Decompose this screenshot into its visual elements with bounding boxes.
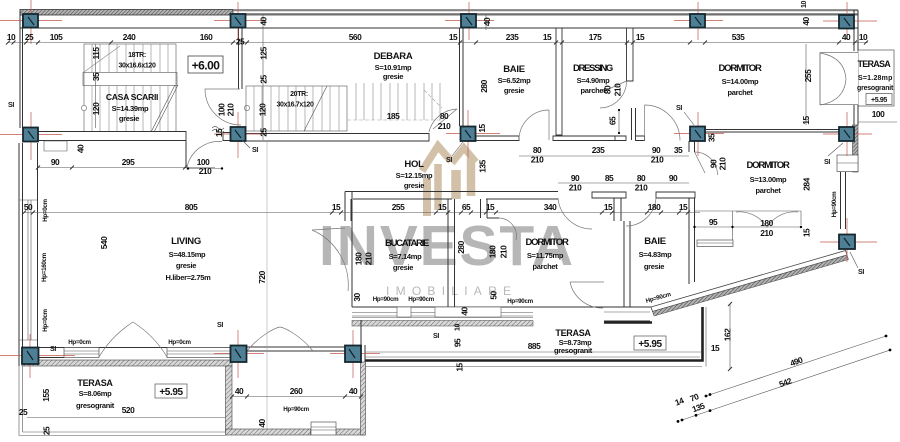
svg-text:40: 40 xyxy=(257,419,267,428)
svg-text:155: 155 xyxy=(41,388,51,401)
column S1 bottom row 3 xyxy=(330,330,380,378)
svg-text:40: 40 xyxy=(482,17,492,26)
wall living south band with windows xyxy=(22,348,232,367)
svg-text:Hp=90cm: Hp=90cm xyxy=(831,191,838,217)
svg-text:15: 15 xyxy=(449,32,458,42)
svg-text:SI: SI xyxy=(8,102,14,109)
svg-text:parchet: parchet xyxy=(756,186,782,195)
svg-text:gresie: gresie xyxy=(176,261,196,270)
svg-text:50: 50 xyxy=(24,202,33,212)
column S1 mid row 4 xyxy=(674,112,724,156)
svg-text:90: 90 xyxy=(652,145,661,155)
svg-text:15: 15 xyxy=(438,202,447,212)
svg-text:560: 560 xyxy=(349,32,362,42)
kitchen south wall windows xyxy=(352,192,660,327)
wall dressing south + east pieces xyxy=(553,136,621,141)
svg-text:520: 520 xyxy=(122,405,135,415)
dimension dormitor13 south xyxy=(695,226,802,228)
column S1 top row 1 xyxy=(0,0,62,44)
dimension kitchen windows xyxy=(373,296,534,305)
svg-text:gresie: gresie xyxy=(404,181,424,190)
wall baie/dressing divider xyxy=(556,28,562,135)
dimension row hol doors xyxy=(477,83,728,173)
svg-text:210: 210 xyxy=(499,245,509,258)
svg-text:40: 40 xyxy=(76,144,86,153)
svg-text:25: 25 xyxy=(259,128,269,137)
svg-text:120: 120 xyxy=(258,103,268,116)
door living-bucatarie xyxy=(312,228,348,291)
break mark xyxy=(212,127,224,133)
svg-text:15: 15 xyxy=(801,116,811,125)
svg-text:CASA SCARII: CASA SCARII xyxy=(106,92,158,102)
svg-text:S=6.52mp: S=6.52mp xyxy=(498,76,532,85)
dimension terasa 8.73 xyxy=(365,302,733,372)
svg-text:255: 255 xyxy=(392,202,405,212)
right window band Hp90 xyxy=(841,172,846,229)
wall right exterior below niche xyxy=(854,105,858,125)
svg-text:15: 15 xyxy=(543,32,552,42)
dormitor11/baie south band xyxy=(604,307,652,323)
watermark INVESTA xyxy=(319,146,575,298)
svg-text:80: 80 xyxy=(533,145,542,155)
svg-text:TERASA: TERASA xyxy=(77,378,113,388)
svg-text:TERASA: TERASA xyxy=(555,328,591,338)
svg-text:Hp=0cm: Hp=0cm xyxy=(42,308,49,331)
door dormitor14 xyxy=(645,105,681,141)
door dressing xyxy=(600,81,627,108)
svg-text:210: 210 xyxy=(199,166,212,176)
svg-text:S=1.28mp: S=1.28mp xyxy=(858,75,892,82)
svg-text:25: 25 xyxy=(259,75,269,84)
svg-text:LIVING: LIVING xyxy=(171,236,201,247)
svg-text:parchet: parchet xyxy=(581,86,607,95)
wall dormitor11 north segments xyxy=(592,192,626,198)
svg-text:Hp=160cm: Hp=160cm xyxy=(41,252,48,282)
dimension patio xyxy=(230,386,363,428)
dimension row bedroom doors xyxy=(558,173,689,193)
svg-text:+5.95: +5.95 xyxy=(871,97,887,104)
svg-text:40: 40 xyxy=(801,17,811,26)
svg-text:340: 340 xyxy=(544,202,557,212)
svg-text:65: 65 xyxy=(462,202,471,212)
svg-text:gresie: gresie xyxy=(504,86,524,95)
door patio french xyxy=(247,327,313,351)
svg-text:parchet: parchet xyxy=(728,88,754,97)
svg-text:15: 15 xyxy=(477,124,487,133)
svg-text:gresie: gresie xyxy=(119,114,139,123)
svg-text:18TR:: 18TR: xyxy=(128,52,146,59)
dimension verticals center xyxy=(41,141,838,430)
svg-text:15: 15 xyxy=(214,128,224,137)
svg-text:SI: SI xyxy=(676,105,682,112)
svg-text:10: 10 xyxy=(801,1,808,9)
svg-text:Hp=90cm: Hp=90cm xyxy=(283,406,309,413)
dormitor13 south wall line xyxy=(695,211,802,240)
svg-text:SI: SI xyxy=(858,269,864,276)
door hol-bucatarie xyxy=(499,218,516,240)
svg-text:BUCATARIE: BUCATARIE xyxy=(385,238,429,249)
stair 18TR upper flight treads xyxy=(92,44,168,72)
svg-text:S=14.39mp: S=14.39mp xyxy=(112,104,149,113)
svg-text:SI: SI xyxy=(252,147,258,154)
watermark logo mark xyxy=(422,146,476,216)
svg-text:gresie: gresie xyxy=(644,262,664,271)
svg-text:H.liber=2.75m: H.liber=2.75m xyxy=(165,273,211,282)
svg-text:210: 210 xyxy=(613,83,623,96)
svg-text:gresie: gresie xyxy=(393,263,413,272)
wall hol top band xyxy=(246,134,429,142)
svg-text:DORMITOR: DORMITOR xyxy=(747,160,790,171)
svg-text:Hp=0cm: Hp=0cm xyxy=(168,339,191,346)
svg-text:40: 40 xyxy=(349,386,358,396)
stair 18TR break line xyxy=(147,85,178,140)
svg-text:115: 115 xyxy=(91,47,101,60)
svg-text:50: 50 xyxy=(489,291,499,300)
door living-casa scarii xyxy=(187,141,222,167)
dimension row left mid xyxy=(36,141,215,176)
dimension diagonal chains xyxy=(645,291,891,423)
svg-text:180: 180 xyxy=(760,218,773,228)
svg-text:235: 235 xyxy=(592,145,605,155)
svg-text:15: 15 xyxy=(636,32,645,42)
column S1 bottom row 1 xyxy=(0,334,75,378)
svg-text:Hp=90cm: Hp=90cm xyxy=(373,296,399,303)
svg-text:90: 90 xyxy=(669,173,678,183)
wall dormitor13 north xyxy=(705,130,839,133)
door terasa 1.28 french xyxy=(820,53,846,105)
svg-text:210: 210 xyxy=(760,228,773,238)
svg-text:SI: SI xyxy=(50,346,56,353)
svg-text:S=4.83mp: S=4.83mp xyxy=(639,250,673,259)
svg-text:Hp=0cm: Hp=0cm xyxy=(68,339,91,346)
svg-text:gresogranit: gresogranit xyxy=(857,85,894,92)
wall casa scarii / debara divider xyxy=(239,28,243,131)
column S1 diagonal xyxy=(820,218,877,262)
stairs xyxy=(81,44,442,140)
svg-text:S=13.00mp: S=13.00mp xyxy=(750,175,787,184)
svg-text:gresogranit: gresogranit xyxy=(76,401,115,410)
terasa 1.28 niche box xyxy=(858,50,894,106)
svg-text:S=4.90mp: S=4.90mp xyxy=(577,76,611,85)
svg-text:35: 35 xyxy=(674,145,683,155)
wall dressing east xyxy=(627,28,634,81)
svg-text:SI: SI xyxy=(217,322,223,329)
svg-text:135: 135 xyxy=(478,159,488,172)
level +6.00 xyxy=(188,56,223,73)
svg-text:HOL: HOL xyxy=(404,159,424,170)
wall left exterior window band xyxy=(19,143,38,366)
svg-text:30x16.7x120: 30x16.7x120 xyxy=(276,102,313,109)
svg-text:185: 185 xyxy=(387,111,400,121)
svg-text:15: 15 xyxy=(486,202,495,212)
door baie483 xyxy=(626,198,656,226)
svg-text:210: 210 xyxy=(226,103,236,116)
svg-text:210: 210 xyxy=(364,252,374,265)
wall right exterior upper xyxy=(854,10,858,51)
svg-text:DRESSING: DRESSING xyxy=(573,63,613,74)
svg-text:BAIE: BAIE xyxy=(503,64,525,75)
svg-text:35: 35 xyxy=(707,133,717,142)
dimension chain top xyxy=(6,32,868,47)
svg-text:S=10.91mp: S=10.91mp xyxy=(375,63,412,72)
svg-text:BAIE: BAIE xyxy=(644,236,666,247)
terasa 8.06 outline xyxy=(19,366,226,436)
wall baie west xyxy=(460,28,464,126)
dimension stair labels xyxy=(118,52,451,137)
svg-text:85: 85 xyxy=(605,173,614,183)
svg-text:Hp=90cm: Hp=90cm xyxy=(408,296,434,303)
svg-text:210: 210 xyxy=(718,157,728,170)
door casa scarii-debara xyxy=(205,89,241,125)
svg-text:260: 260 xyxy=(290,386,303,396)
door baie 6.52 xyxy=(519,110,549,140)
svg-text:40: 40 xyxy=(235,386,244,396)
svg-text:25: 25 xyxy=(25,32,34,42)
column S1 mid row 3 xyxy=(446,110,500,158)
dimension chain y212 xyxy=(22,198,812,238)
svg-text:210: 210 xyxy=(569,183,582,193)
column S1 top row 4 xyxy=(674,2,723,40)
svg-text:105: 105 xyxy=(50,32,63,42)
wall kitchen east xyxy=(448,199,455,307)
doors xyxy=(99,53,846,357)
svg-text:parchet: parchet xyxy=(533,262,559,271)
svg-text:535: 535 xyxy=(732,32,745,42)
stair 18TR landing xyxy=(83,73,177,86)
column S1 mid row 1 xyxy=(0,112,62,160)
svg-text:30: 30 xyxy=(352,293,362,302)
column S1 bottom row 2 xyxy=(214,330,264,378)
stair node circles xyxy=(81,105,86,110)
door dormitor13 xyxy=(695,152,718,175)
column S1 mid row 5 xyxy=(823,112,872,156)
svg-text:175: 175 xyxy=(589,32,602,42)
svg-text:35: 35 xyxy=(91,72,101,81)
wall hol-baie band east of column xyxy=(476,136,519,141)
svg-text:180: 180 xyxy=(354,252,364,265)
svg-text:40: 40 xyxy=(460,307,470,316)
svg-text:SI: SI xyxy=(433,333,439,340)
svg-text:280: 280 xyxy=(456,240,466,253)
svg-text:SI: SI xyxy=(446,157,452,164)
svg-text:180: 180 xyxy=(488,245,498,258)
svg-text:25: 25 xyxy=(42,426,52,435)
svg-text:DORMITOR: DORMITOR xyxy=(526,237,569,248)
wall baie483 west xyxy=(614,198,630,307)
svg-text:125: 125 xyxy=(259,46,269,59)
svg-text:240: 240 xyxy=(123,32,136,42)
wall left exterior upper xyxy=(20,10,23,129)
svg-text:95: 95 xyxy=(709,217,718,227)
svg-text:720: 720 xyxy=(257,270,267,283)
svg-text:284: 284 xyxy=(802,177,812,190)
stair 18TR boundary xyxy=(84,44,176,140)
svg-text:DEBARA: DEBARA xyxy=(374,51,413,62)
svg-text:280: 280 xyxy=(479,79,489,92)
svg-text:805: 805 xyxy=(185,202,198,212)
stair 18TR up line xyxy=(84,46,120,72)
svg-text:210: 210 xyxy=(438,121,451,131)
svg-text:gresie: gresie xyxy=(383,72,403,81)
svg-text:15: 15 xyxy=(455,363,465,372)
svg-text:80: 80 xyxy=(440,111,449,121)
svg-text:295: 295 xyxy=(122,157,135,167)
svg-text:DORMITOR: DORMITOR xyxy=(719,63,762,74)
patio walls hatched xyxy=(226,347,366,435)
svg-text:15: 15 xyxy=(679,202,688,212)
svg-text:80: 80 xyxy=(637,173,646,183)
svg-text:S=12.15mp: S=12.15mp xyxy=(396,171,433,180)
svg-text:100: 100 xyxy=(872,109,885,119)
svg-text:162: 162 xyxy=(723,328,733,341)
right window hatch band xyxy=(853,125,859,172)
svg-text:235: 235 xyxy=(506,32,519,42)
svg-text:885: 885 xyxy=(528,341,541,351)
door dormitor11 xyxy=(558,198,592,229)
stair 18TR lower flight treads xyxy=(92,86,168,140)
svg-text:S=7.14mp: S=7.14mp xyxy=(389,252,423,261)
svg-text:90: 90 xyxy=(51,157,60,167)
svg-text:S=48.15mp: S=48.15mp xyxy=(169,250,206,259)
svg-text:30x16.6x120: 30x16.6x120 xyxy=(118,63,155,70)
svg-text:255: 255 xyxy=(803,69,813,82)
svg-text:160: 160 xyxy=(200,32,213,42)
wall living north band xyxy=(38,132,186,141)
svg-text:gresogranit: gresogranit xyxy=(554,346,593,355)
door dormitor11-terasa xyxy=(570,282,604,308)
wall patio east outer xyxy=(361,320,365,362)
column S1 top row 5 xyxy=(823,2,877,40)
svg-text:120: 120 xyxy=(91,102,101,115)
wall top exterior insulation hatch xyxy=(20,10,233,16)
stair 20TR solid flight xyxy=(246,86,347,131)
dormitor13 south sill xyxy=(697,240,733,247)
svg-text:10: 10 xyxy=(859,32,868,42)
dimension bottom left xyxy=(19,339,225,435)
column S1 mid row 2 xyxy=(214,112,264,158)
column S1 top row 2 xyxy=(214,2,264,40)
svg-text:+6.00: +6.00 xyxy=(192,59,221,73)
svg-text:65: 65 xyxy=(608,116,618,125)
svg-text:TERASA: TERASA xyxy=(858,59,892,69)
svg-text:S=8.06mp: S=8.06mp xyxy=(79,389,113,398)
svg-text:+5.95: +5.95 xyxy=(159,387,183,398)
svg-text:15: 15 xyxy=(802,228,812,237)
terasa 8.73 bold edge xyxy=(365,307,703,362)
dimension verticals near stair xyxy=(91,1,813,140)
door hol top 80/210 xyxy=(429,109,457,132)
svg-text:540: 540 xyxy=(99,236,109,249)
svg-text:10: 10 xyxy=(455,324,462,332)
door living-terasa french xyxy=(99,322,167,357)
svg-text:SI: SI xyxy=(824,159,830,166)
svg-text:40: 40 xyxy=(259,17,269,26)
stair 20TR dashed upper treads xyxy=(356,83,440,120)
svg-text:180: 180 xyxy=(648,202,661,212)
diagonal wall band xyxy=(651,251,849,317)
svg-text:210: 210 xyxy=(635,183,648,193)
stair 20TR break diagonal xyxy=(304,86,327,131)
svg-text:S=11.75mp: S=11.75mp xyxy=(527,251,564,260)
svg-text:10: 10 xyxy=(7,32,16,42)
svg-text:+5.95: +5.95 xyxy=(638,339,662,350)
svg-text:90: 90 xyxy=(571,173,580,183)
svg-text:25: 25 xyxy=(236,37,245,47)
wall top exterior body inner face xyxy=(20,27,858,29)
right window sill rect xyxy=(837,155,858,172)
wall hol south band xyxy=(345,192,558,200)
svg-text:Hp=0cm: Hp=0cm xyxy=(42,198,49,221)
dimension right 100 xyxy=(858,109,897,122)
svg-text:25: 25 xyxy=(19,407,28,417)
svg-text:40: 40 xyxy=(842,32,851,42)
door dormitor13 french xyxy=(736,212,798,228)
column S1 top row 3 xyxy=(445,2,494,40)
svg-text:15: 15 xyxy=(604,202,613,212)
svg-text:15: 15 xyxy=(332,202,341,212)
svg-text:95: 95 xyxy=(453,338,463,347)
svg-text:Hp=90cm: Hp=90cm xyxy=(507,298,533,305)
svg-text:15: 15 xyxy=(711,343,720,353)
svg-text:20TR:: 20TR: xyxy=(290,91,308,98)
svg-text:S=14.00mp: S=14.00mp xyxy=(722,77,759,86)
wall dormitor13 west xyxy=(689,141,695,284)
